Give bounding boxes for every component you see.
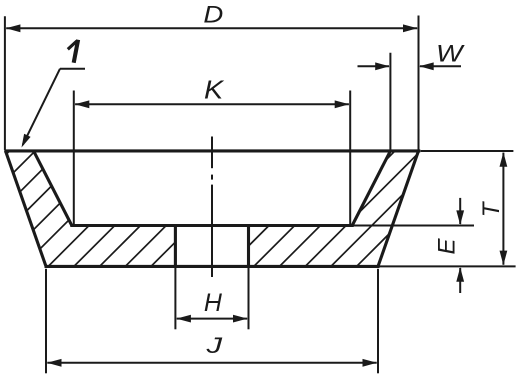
leader line for item 1 xyxy=(22,69,86,148)
dimension line T xyxy=(500,152,508,265)
svg-text:T: T xyxy=(478,200,505,217)
extension line bottom-right xyxy=(380,265,516,267)
extension line W left xyxy=(389,53,391,150)
outer wall right xyxy=(378,151,419,267)
extension line J left xyxy=(45,269,47,374)
dimension line D xyxy=(6,24,418,32)
extension line H right xyxy=(248,268,250,329)
wheel top surface xyxy=(4,149,420,152)
svg-text:D: D xyxy=(203,2,223,28)
extension line D/W right xyxy=(418,16,420,150)
dimension line J xyxy=(47,359,377,367)
outer wall left xyxy=(6,151,47,267)
svg-text:W: W xyxy=(436,40,465,68)
extension line top-right xyxy=(421,150,514,152)
recess floor line xyxy=(70,224,353,227)
extension line K left xyxy=(73,91,75,225)
svg-text:E: E xyxy=(434,238,461,255)
inner wall left xyxy=(34,151,72,226)
extension line recess floor right xyxy=(354,225,475,227)
dimension line K xyxy=(75,100,349,108)
dimension line W (outside arrows) xyxy=(358,62,462,70)
hatching right section xyxy=(0,138,511,272)
extension line J right xyxy=(377,269,379,374)
extension line H left xyxy=(174,268,176,329)
bottom surface xyxy=(45,265,380,268)
hole wall right xyxy=(247,224,250,268)
hole wall left xyxy=(174,224,177,268)
dimension line H xyxy=(176,315,247,323)
dimension line E (outside arrows) xyxy=(456,198,464,293)
extension line D left xyxy=(4,16,6,150)
centerline xyxy=(211,137,213,278)
inner wall right xyxy=(352,151,390,226)
svg-text:K: K xyxy=(204,75,225,104)
hatching left section xyxy=(0,138,511,272)
label 1 (drawn as path: stem + flag, no foot) xyxy=(68,40,78,63)
extension line K right xyxy=(349,91,351,225)
svg-text:H: H xyxy=(204,289,223,317)
svg-text:J: J xyxy=(205,332,222,358)
